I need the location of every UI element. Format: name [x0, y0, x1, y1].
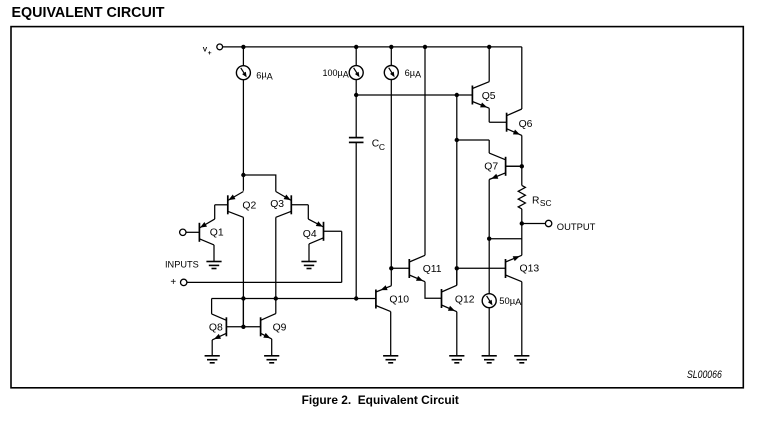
wire Q10 emitter riser	[390, 268, 392, 286]
wire Q2 emitter drop	[242, 175, 244, 191]
label INPUTS	[165, 260, 199, 270]
page title	[12, 5, 165, 21]
wire Q1 collector drop to ground	[213, 245, 215, 262]
svg-text:100µA: 100µA	[323, 68, 349, 80]
wire Q7 base to node C	[506, 165, 522, 167]
wire Q12 emitter drop	[456, 312, 458, 356]
wire Q13 collector drop	[521, 282, 523, 356]
svg-text:Q1: Q1	[210, 228, 224, 239]
transistor Q1	[186, 219, 215, 245]
wire 100uA branch upper	[355, 47, 357, 66]
junction on rail at 6uA-2	[389, 45, 393, 49]
transistor Q5	[472, 82, 489, 109]
svg-text:Q6: Q6	[519, 119, 533, 130]
label V+	[203, 47, 212, 57]
wire Q9 collector riser	[275, 299, 277, 314]
transistor Q3	[276, 192, 309, 218]
transistor Q7	[489, 153, 522, 179]
wire Q13 base rail	[457, 267, 506, 269]
junction Q12 collector / Q13 base	[455, 266, 459, 270]
svg-text:Q13: Q13	[520, 263, 540, 274]
label Q4	[303, 229, 317, 240]
wire top supply rail	[223, 46, 522, 48]
svg-text:Q5: Q5	[482, 91, 496, 102]
label Q10	[389, 294, 409, 305]
junction CC bottom on base rail	[354, 296, 358, 300]
ground under Q9	[264, 356, 279, 363]
value label 6uA (I3)	[405, 68, 422, 80]
ground under 50uA source	[482, 356, 497, 363]
ground under Q12	[449, 356, 464, 363]
label Q6	[519, 119, 533, 130]
label Q11	[423, 264, 442, 275]
label RSC	[532, 195, 552, 208]
label plus input	[170, 277, 176, 288]
wire 6uA-2 branch upper	[390, 47, 392, 66]
wire Q7 collector drop	[488, 140, 490, 153]
junction node D	[455, 138, 459, 142]
wire Q11 collector riser	[424, 47, 426, 255]
svg-text:+: +	[170, 277, 176, 288]
junction Q3 collector on base rail	[274, 296, 278, 300]
wire output lead	[522, 223, 546, 225]
wire 6uA-1 branch lower to node A	[242, 80, 244, 176]
svg-text:Q11: Q11	[423, 264, 442, 275]
current source I1 6uA	[236, 66, 250, 80]
transistor Q10	[376, 285, 391, 311]
svg-text:6µA: 6µA	[405, 68, 422, 80]
wire node D horizontal to Q7 collector	[457, 139, 489, 141]
label Q3	[270, 199, 284, 210]
wire Q7 emitter drop to 50uA	[488, 180, 490, 294]
ground under Q4	[301, 262, 316, 269]
svg-text:Q10: Q10	[389, 294, 409, 305]
svg-text:Q8: Q8	[209, 323, 223, 334]
wire capacitor top	[355, 95, 357, 137]
wire Q5 collector riser	[488, 47, 490, 82]
figure border frame (decorative)	[11, 27, 743, 388]
wire Q8/Q9 base tie riser	[242, 299, 244, 327]
wire plus input lead	[187, 281, 342, 283]
wire output node down to Q13 emitter	[521, 224, 523, 256]
wire Q3 base link to Q4 emitter	[307, 205, 309, 219]
transistor Q6	[507, 109, 522, 135]
transistor Q11	[409, 255, 425, 281]
node plus input terminal	[181, 279, 187, 285]
svg-text:INPUTS: INPUTS	[165, 260, 199, 270]
value label 100uA (I2)	[323, 68, 349, 80]
ground under Q10	[383, 356, 398, 363]
label SL00066	[687, 369, 722, 381]
wire Q8 emitter drop	[211, 340, 213, 356]
wire base rail y298 (Q8 Q9 to Q10 base)	[212, 298, 376, 300]
current source I3 6uA	[384, 66, 398, 80]
transistor Q2	[215, 192, 244, 218]
label Q5	[482, 91, 496, 102]
svg-text:Q2: Q2	[242, 201, 256, 212]
current source I4 50uA	[482, 294, 496, 308]
junction Q8/Q9 base tie	[241, 325, 245, 329]
junction node E	[487, 237, 491, 241]
junction on rail at Q11 riser	[423, 45, 427, 49]
junction Q2 collector on base rail	[241, 296, 245, 300]
current source I2 100uA	[349, 66, 363, 80]
node V+ terminal	[217, 44, 223, 50]
capacitor CC	[349, 138, 364, 143]
transistor Q12	[442, 285, 457, 311]
label Q9	[273, 323, 287, 334]
label Q7	[484, 162, 498, 173]
svg-text:C: C	[379, 142, 385, 152]
wire Q5 emitter drop	[488, 108, 490, 122]
wire Q9 emitter drop	[271, 339, 273, 356]
label Q13	[520, 263, 540, 274]
svg-text:OUTPUT: OUTPUT	[557, 221, 596, 232]
wire Q12 collector riser	[456, 268, 458, 285]
svg-text:R: R	[532, 195, 539, 206]
wire Rsc bottom to output node	[521, 209, 523, 224]
label Q1	[210, 228, 224, 239]
junction Q2/Q3 emitter tie node	[241, 173, 245, 177]
label Q8	[209, 323, 223, 334]
wire node C to Rsc top	[521, 166, 523, 185]
wire Q2 collector drop	[242, 217, 244, 326]
label Q12	[455, 294, 475, 305]
wire Q2/Q3 emitter tie	[243, 175, 275, 192]
wire Q11 base rail	[391, 267, 409, 269]
svg-text:SL00066: SL00066	[687, 369, 722, 381]
junction Q5 base riser	[455, 93, 459, 97]
junction on rail at 6uA-1	[241, 45, 245, 49]
svg-text:SC: SC	[540, 198, 552, 208]
label OUTPUT	[557, 221, 596, 232]
node OUTPUT terminal	[545, 220, 551, 226]
node minus input terminal	[180, 229, 186, 235]
wire 50uA lower drop	[488, 308, 490, 356]
label CC	[372, 139, 385, 152]
transistor Q9	[243, 314, 275, 339]
junction node B (100uA/CC/Q5 base)	[354, 93, 358, 97]
svg-text:Q3: Q3	[270, 199, 284, 210]
transistor Q13	[506, 255, 522, 281]
resistor RSC	[518, 185, 525, 209]
wire plus input riser to Q4 base	[341, 231, 343, 282]
wire Q6 emitter drop to node C	[521, 135, 523, 166]
value label 6uA (I1)	[256, 70, 273, 82]
svg-text:Q4: Q4	[303, 229, 317, 240]
junction on rail at Q5 riser	[487, 45, 491, 49]
wire Q2 base link to Q1 emitter	[214, 205, 216, 219]
svg-text:50µA: 50µA	[499, 295, 522, 307]
ground under Q13	[514, 356, 529, 363]
wire Q11 emitter drop	[425, 282, 442, 299]
value label 50uA (I4)	[499, 295, 522, 307]
wire Q3 collector drop	[275, 217, 277, 298]
wire Q8 collector riser	[211, 299, 213, 314]
wire Q4 collector drop to ground	[308, 244, 310, 262]
svg-text:Q12: Q12	[455, 294, 475, 305]
transistor Q4	[308, 219, 341, 244]
junction node C (Q7 base)	[520, 164, 524, 168]
wire Q10 collector drop	[390, 312, 392, 356]
junction Q10 emitter / Q11 base	[389, 266, 393, 270]
ground under Q8	[205, 356, 220, 363]
transistor Q8	[212, 314, 244, 340]
wire capacitor bottom drop	[355, 143, 357, 299]
ground under Q1	[206, 262, 221, 269]
wire 100uA branch lower	[355, 80, 357, 96]
label Q2	[242, 201, 256, 212]
wire node B horizontal (100uA to Q5 base)	[356, 94, 472, 96]
svg-text:+: +	[208, 50, 212, 57]
figure caption	[302, 393, 459, 407]
wire node E horizontal (Q7 emitter to Q13 emitter)	[489, 238, 522, 240]
svg-text:Q7: Q7	[484, 162, 498, 173]
junction on rail at 100uA	[354, 45, 358, 49]
junction output node	[520, 221, 524, 225]
svg-text:6µA: 6µA	[256, 70, 273, 82]
wire Q5 emitter to Q6 base	[489, 121, 506, 123]
wire 6uA-1 branch upper	[242, 47, 244, 66]
wire V+ rail corner down to Q6 collector	[521, 47, 523, 109]
wire 6uA-2 branch lower to Q10 emitter node	[390, 80, 392, 269]
svg-text:Q9: Q9	[273, 323, 287, 334]
wire long riser Q5 base to Q12 collector	[456, 95, 458, 285]
